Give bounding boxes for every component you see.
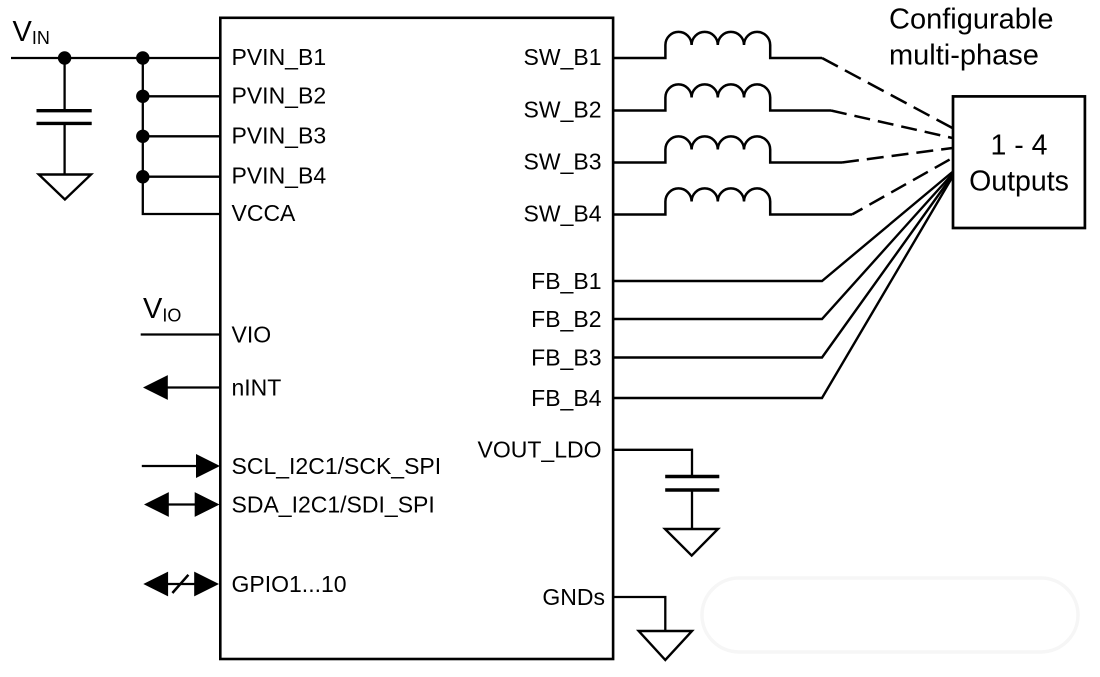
output box 1-4 Outputs xyxy=(953,96,1085,228)
wire SW_B2 dashed phase link xyxy=(831,111,952,139)
inductor L2 xyxy=(613,84,831,110)
svg-text:GNDs: GNDs xyxy=(542,584,605,610)
capacitor C1 xyxy=(37,111,92,124)
wire SW_B1 dashed phase link xyxy=(822,58,952,128)
capacitor C2 xyxy=(665,477,719,491)
svg-text:FB_B4: FB_B4 xyxy=(531,385,602,411)
wire VOUT_LDO to C2 xyxy=(613,450,692,477)
ground under C2 xyxy=(665,529,718,556)
arrowhead SDA right xyxy=(195,492,220,517)
ground under C1 xyxy=(39,175,91,200)
wire C2 bottom lead xyxy=(691,490,693,530)
svg-text:SW_B4: SW_B4 xyxy=(524,201,602,227)
wire nINT xyxy=(165,386,220,388)
ground under GNDs xyxy=(639,631,692,660)
wire VIN to PVIN_B1 xyxy=(11,57,220,59)
svg-text:SDA_I2C1/SDI_SPI: SDA_I2C1/SDI_SPI xyxy=(232,492,435,518)
svg-text:FB_B1: FB_B1 xyxy=(531,268,601,294)
wire VIN bus vertical xyxy=(143,58,221,214)
svg-text:PVIN_B2: PVIN_B2 xyxy=(232,82,327,108)
wire C1 top lead xyxy=(63,58,65,111)
svg-text:multi-phase: multi-phase xyxy=(889,39,1039,71)
svg-text:PVIN_B3: PVIN_B3 xyxy=(232,122,327,148)
junction dot at VIN bus xyxy=(136,51,149,64)
wire C1 bottom lead xyxy=(63,123,65,175)
wire FB_B3 xyxy=(613,176,952,358)
wire bus to PVIN_B3 xyxy=(143,135,221,137)
output box label xyxy=(969,129,1069,197)
inductor L1 xyxy=(613,32,822,58)
svg-text:SW_B1: SW_B1 xyxy=(524,44,602,70)
svg-text:nINT: nINT xyxy=(232,375,282,401)
wire bus to PVIN_B4 xyxy=(143,176,221,178)
svg-text:SW_B3: SW_B3 xyxy=(524,149,602,175)
svg-text:Outputs: Outputs xyxy=(969,165,1069,197)
junction dot PVIN_B3 xyxy=(136,130,149,143)
wire SDA xyxy=(160,503,205,505)
IC U1 body xyxy=(220,18,613,659)
svg-text:PVIN_B1: PVIN_B1 xyxy=(232,44,327,70)
svg-text:GPIO1...10: GPIO1...10 xyxy=(232,571,347,597)
inductor L3 xyxy=(613,136,842,162)
wire GPIO xyxy=(160,583,205,585)
annotation Configurable multi-phase xyxy=(889,3,1053,71)
svg-text:VCCA: VCCA xyxy=(232,200,297,226)
junction dot PVIN_B2 xyxy=(136,90,149,103)
arrowhead GPIO right xyxy=(194,572,219,597)
arrowhead SCL (in) xyxy=(196,454,220,478)
svg-text:VOUT_LDO: VOUT_LDO xyxy=(478,437,602,463)
arrowhead nINT (out) xyxy=(143,375,168,400)
arrowhead SDA left xyxy=(144,492,169,517)
wire GNDs xyxy=(613,597,665,632)
svg-text:Configurable: Configurable xyxy=(889,3,1053,35)
wire SCL xyxy=(142,465,198,467)
inductor L4 xyxy=(613,188,852,214)
wire VIO xyxy=(141,333,221,335)
wire FB_B1 xyxy=(613,172,952,281)
svg-text:PVIN_B4: PVIN_B4 xyxy=(232,163,327,189)
wire FB_B2 xyxy=(613,174,952,319)
svg-text:VIO: VIO xyxy=(232,321,272,347)
svg-text:1 - 4: 1 - 4 xyxy=(990,129,1047,161)
arrowhead GPIO left xyxy=(143,572,168,597)
watermark ghost xyxy=(702,578,1078,652)
svg-text:FB_B3: FB_B3 xyxy=(531,345,601,371)
wire FB_B4 xyxy=(613,177,952,398)
svg-text:SCL_I2C1/SCK_SPI: SCL_I2C1/SCK_SPI xyxy=(232,453,442,479)
wire bus to PVIN_B2 xyxy=(143,95,221,97)
bus-width slash on GPIO xyxy=(172,575,188,593)
junction dot PVIN_B4 xyxy=(136,170,149,183)
svg-text:SW_B2: SW_B2 xyxy=(524,97,602,123)
wire SW_B3 dashed phase link xyxy=(842,148,952,163)
wire SW_B4 dashed phase link xyxy=(852,158,952,215)
svg-text:FB_B2: FB_B2 xyxy=(531,306,601,332)
junction dot at VIN/C1 xyxy=(58,51,71,64)
